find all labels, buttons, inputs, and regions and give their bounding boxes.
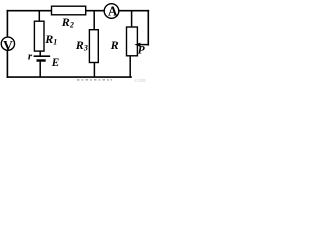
svg-text:com: com xyxy=(135,77,146,84)
watermark dots xyxy=(77,79,112,81)
wiper arrow P xyxy=(134,43,148,47)
resistor R2 xyxy=(52,6,86,15)
svg-text:P: P xyxy=(138,44,146,56)
wire top-right segment (ammeter to corner) xyxy=(118,10,148,12)
battery E with internal resistance r xyxy=(34,51,51,77)
wire left edge upper (corner to voltmeter) xyxy=(6,11,8,37)
wire top-middle segment (R2 right to ammeter) xyxy=(86,10,105,12)
svg-text:E: E xyxy=(51,57,59,69)
ammeter A xyxy=(104,4,119,19)
voltmeter V xyxy=(1,37,14,53)
svg-text:A: A xyxy=(108,4,118,19)
svg-text:V: V xyxy=(3,38,13,53)
svg-text:R: R xyxy=(110,38,119,52)
wire top-left segment xyxy=(7,10,51,12)
resistor R1 xyxy=(34,11,44,51)
resistor R3 xyxy=(89,11,98,77)
svg-text:r: r xyxy=(28,51,33,63)
wire bottom edge xyxy=(7,76,131,78)
rheostat R (slider) xyxy=(127,11,138,77)
wire left edge lower (voltmeter to corner) xyxy=(6,50,8,77)
wire right edge xyxy=(147,11,149,45)
